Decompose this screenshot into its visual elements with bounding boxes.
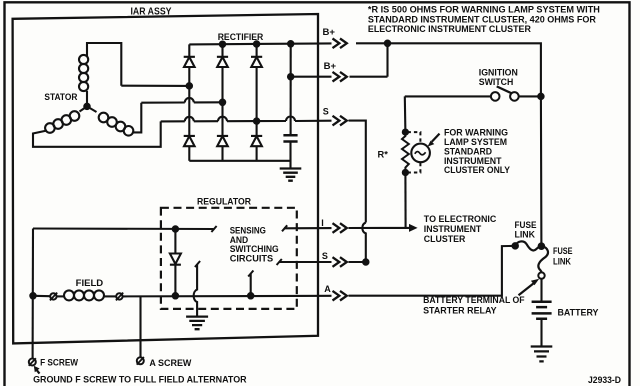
node col3 top	[254, 41, 259, 46]
svg-text:B+: B+	[324, 61, 337, 71]
svg-text:CIRCUITS: CIRCUITS	[230, 254, 274, 264]
svg-text:J2933-D: J2933-D	[588, 375, 621, 385]
node col2 top	[220, 42, 225, 47]
brush contact 1	[50, 293, 56, 299]
lamp dashed link top	[408, 132, 421, 143]
brush contact 2	[116, 293, 122, 299]
arrow ground note to F screw	[37, 370, 40, 374]
rectifier bottom bus	[189, 160, 290, 162]
svg-text:FUSE: FUSE	[515, 220, 537, 230]
wire stator phase1 to rectifier	[121, 85, 189, 87]
label FUSE LINK (first)	[515, 220, 537, 240]
wire left vertical to F screw	[32, 229, 35, 359]
terminal chevrons B+1	[333, 39, 347, 49]
terminal chevrons S lower	[333, 257, 347, 267]
fuse link 1 (horizontal squiggle)	[515, 241, 541, 250]
wire I to arrow	[349, 227, 411, 229]
svg-text:SWITCH: SWITCH	[479, 77, 514, 87]
relay terminal circle	[538, 272, 544, 278]
svg-text:S: S	[323, 106, 329, 116]
wire stator phase2 to rectifier (hop over col1)	[141, 101, 222, 103]
terminal chevrons I	[333, 223, 347, 233]
pin tick stub	[248, 271, 253, 277]
node col2 phase2	[220, 100, 225, 105]
node A bus stub	[248, 293, 253, 298]
pin tick S output	[277, 259, 282, 265]
terminal chevrons A	[333, 291, 347, 301]
ground regulator	[186, 317, 208, 330]
ground battery	[531, 347, 553, 362]
svg-text:FUSE: FUSE	[553, 246, 573, 256]
node field/left vertical	[30, 293, 35, 298]
label SENSING AND SWITCHING CIRCUITS	[230, 225, 279, 263]
svg-text:STARTER RELAY: STARTER RELAY	[423, 305, 497, 315]
wire switch down to R*	[404, 96, 407, 132]
ground rectifier	[280, 169, 302, 181]
wire I output	[284, 227, 332, 229]
label IGNITION SWITCH	[479, 67, 518, 87]
svg-text:R*: R*	[378, 150, 389, 160]
svg-text:IAR ASSY: IAR ASSY	[131, 7, 172, 18]
node zener bottom	[173, 293, 178, 298]
wire B+2 row	[291, 76, 388, 78]
node B+ join	[385, 41, 390, 46]
label TO ELECTRONIC INSTRUMENT CLUSTER	[424, 214, 497, 244]
svg-text:F SCREW: F SCREW	[40, 358, 78, 368]
wire stator phase3 / S line (hops over col1,col2,cap)	[161, 120, 332, 123]
node fuse left	[513, 243, 518, 248]
diode D2 top (col2)	[217, 44, 228, 57]
wire B+1 from bus to terminal	[356, 42, 388, 44]
svg-text:ELECTRONIC INSTRUMENT CLUSTER: ELECTRONIC INSTRUMENT CLUSTER	[368, 23, 531, 34]
terminal chevrons S top	[333, 116, 347, 126]
resistor R*	[402, 132, 409, 172]
node R* bottom	[403, 170, 408, 175]
wire B+ bus to right and down to fuse	[388, 43, 542, 246]
terminal chevrons B+2	[333, 72, 347, 82]
arrow to relay terminal	[519, 283, 535, 296]
svg-text:I: I	[321, 218, 324, 228]
arrow to lamp	[432, 134, 440, 142]
svg-text:GROUND F SCREW TO FULL FIELD A: GROUND F SCREW TO FULL FIELD ALTERNATOR	[33, 374, 247, 384]
svg-text:BATTERY: BATTERY	[558, 307, 600, 317]
wire S vertical hop over I line	[362, 223, 365, 263]
node col1 phase1	[187, 83, 192, 88]
svg-text:LINK: LINK	[553, 256, 571, 266]
IAR ASSY enclosure box	[13, 14, 318, 343]
stator winding L3 (right coil)	[87, 106, 97, 112]
wire S top to down-run	[349, 121, 366, 223]
node R* top	[403, 130, 408, 135]
diode D3 top (col3)	[251, 44, 262, 57]
diode D4 bottom (col1)	[184, 86, 195, 136]
wire regulator ground (hop over A bus)	[194, 264, 197, 317]
wire lamp branch down to I line	[404, 173, 406, 228]
capacitor C1	[290, 44, 292, 135]
regulator dashed box	[161, 208, 297, 309]
stator winding L2 (left coil)	[80, 106, 88, 111]
diode D1 top (col1)	[184, 44, 195, 56]
node cap col / B+2 junction	[288, 74, 293, 79]
wire field to A bus (through regulator)	[123, 295, 332, 298]
wire S lower to junction	[349, 261, 366, 263]
pin tick I output	[282, 225, 287, 231]
node cap col top	[288, 41, 293, 46]
diode D5 bottom (col2)	[217, 102, 228, 136]
svg-text:LINK: LINK	[515, 230, 536, 240]
wire S output	[279, 261, 332, 263]
screw terminal F	[29, 359, 36, 366]
rectifier top bus	[189, 43, 331, 44]
zener diode Z1	[174, 229, 176, 253]
wire A screw drop	[139, 296, 141, 357]
field coil L4	[57, 295, 64, 297]
svg-text:INSTRUMENT: INSTRUMENT	[424, 224, 482, 234]
wire B+ join vertical	[386, 43, 388, 76]
label FOR WARNING LAMP SYSTEM STANDARD INSTRUMENT CLUSTER ONLY	[444, 128, 511, 176]
node switch/B+ junction	[538, 94, 543, 99]
wire field line left	[33, 295, 50, 298]
stator winding L1 (top coil)	[86, 91, 88, 106]
battery BT1	[540, 279, 542, 302]
fuse link 2 (vertical squiggle)	[538, 246, 548, 272]
svg-text:B+: B+	[323, 27, 336, 37]
svg-text:A SCREW: A SCREW	[149, 358, 191, 368]
pin tick regulator ground	[195, 261, 200, 267]
arrowhead to electronic cluster	[409, 224, 418, 232]
switch SW1 ignition	[405, 95, 491, 97]
diode D6 bottom (col3)	[251, 121, 262, 136]
label BATTERY TERMINAL OF STARTER RELAY	[423, 295, 525, 316]
wire sense input (left)	[33, 227, 213, 230]
label FUSE LINK (second)	[553, 246, 573, 267]
svg-text:STATOR: STATOR	[44, 92, 77, 102]
svg-text:REGULATOR: REGULATOR	[197, 197, 251, 208]
svg-text:A: A	[324, 284, 331, 294]
lamp dashed link bottom	[408, 163, 421, 173]
svg-text:BATTERY TERMINAL OF: BATTERY TERMINAL OF	[423, 295, 525, 305]
svg-text:CLUSTER ONLY: CLUSTER ONLY	[444, 165, 511, 175]
svg-text:S: S	[322, 251, 328, 261]
lamp (warning)	[411, 144, 430, 163]
wire stub	[250, 274, 252, 296]
pin tick sense	[211, 226, 216, 232]
node S join	[363, 259, 368, 264]
svg-text:IGNITION: IGNITION	[479, 67, 518, 77]
node stator center	[84, 104, 89, 109]
svg-text:TO ELECTRONIC: TO ELECTRONIC	[424, 214, 497, 224]
node fuse junction	[539, 243, 545, 249]
note text	[368, 4, 600, 35]
svg-text:FIELD: FIELD	[76, 278, 104, 288]
node zener top	[173, 226, 178, 231]
node col3 phase3	[254, 118, 259, 123]
wire A to fuse link riser	[349, 246, 516, 296]
svg-text:CLUSTER: CLUSTER	[424, 234, 466, 244]
screw terminal A	[137, 357, 144, 364]
